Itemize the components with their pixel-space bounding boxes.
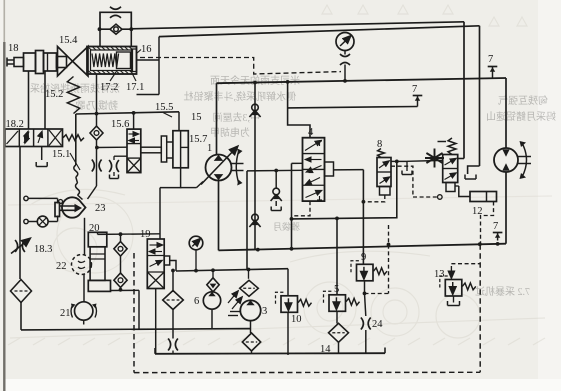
switch terminal upper xyxy=(24,196,28,200)
svg-text:3: 3 xyxy=(262,306,267,317)
wire cartridge bottom to pilot column xyxy=(96,74,98,128)
node col bottom xyxy=(119,288,123,292)
wire valve11 to cylinder12 xyxy=(459,186,470,197)
pump 1 variable xyxy=(206,155,232,181)
wire gauge stem xyxy=(344,51,346,55)
servo cylinder 15.7 xyxy=(173,131,188,168)
linkage 15.6 to 15.7 xyxy=(141,147,162,153)
node 15.5-156top xyxy=(132,111,136,115)
wire valve8 bottom dashed xyxy=(363,195,384,202)
main pressure line pump1 to motor xyxy=(217,78,507,83)
wire 15.1 down with wavy breaks xyxy=(75,114,76,130)
node return-valve4col xyxy=(290,247,294,251)
wire valve4 bottom dashed xyxy=(293,201,310,216)
svg-text:18: 18 xyxy=(8,43,19,54)
valve4 right tab xyxy=(325,162,334,176)
throttle 24 xyxy=(361,318,364,330)
main pump 3 xyxy=(240,300,260,320)
wire valve18 stems xyxy=(28,71,30,129)
pressure gauge top xyxy=(336,33,354,51)
wire pump1 bottom riser xyxy=(218,181,220,250)
wire motor top riser xyxy=(505,78,507,148)
wire 20 top stub xyxy=(97,232,99,234)
wire cyl12 dashed drain xyxy=(481,202,494,244)
filter below pump3 xyxy=(242,333,260,351)
charge pump 6 xyxy=(203,292,220,309)
throttle pilot column xyxy=(92,160,95,172)
svg-text:妈采月鳍铝速山: 妈采月鳍铝速山 xyxy=(486,110,556,123)
wire 20 top bus xyxy=(98,233,161,236)
svg-text:1: 1 xyxy=(207,143,212,154)
solenoid valve 18.2 xyxy=(5,129,63,147)
wire pilot column xyxy=(96,140,98,186)
wire valve4 right to valve9 col xyxy=(334,169,364,171)
svg-text:15.1: 15.1 xyxy=(52,149,70,160)
wire valve9 col xyxy=(362,170,364,265)
svg-text:15.5: 15.5 xyxy=(155,102,173,113)
svg-text:15.4: 15.4 xyxy=(59,35,78,46)
relief valve 9 xyxy=(357,264,374,281)
svg-text:4: 4 xyxy=(308,127,314,138)
dashed enclosure xyxy=(133,253,135,373)
svg-text:17.1: 17.1 xyxy=(126,82,144,93)
line 15.5 xyxy=(76,112,179,114)
lever 23 xyxy=(60,205,77,207)
svg-text:23: 23 xyxy=(95,203,106,214)
filter above pump3 xyxy=(248,270,250,279)
wire 18.2 tank stem xyxy=(41,147,43,161)
dashed feed to 13 xyxy=(451,263,479,265)
wire cartridge right port xyxy=(137,59,160,61)
motor rotation arrow xyxy=(522,143,527,177)
node check branch xyxy=(253,81,257,85)
check diamond to pump6 xyxy=(212,270,214,277)
svg-text:18.3: 18.3 xyxy=(34,244,52,255)
check valve on loop bottom xyxy=(99,28,131,30)
wire bus corner to valve10 xyxy=(287,269,289,296)
hand pump 23 xyxy=(62,197,86,217)
wire line B to tank xyxy=(468,166,480,174)
pressure valve 11 xyxy=(448,138,456,155)
pump 1 shaft xyxy=(232,163,244,165)
left margin edge xyxy=(0,0,3,391)
node loop-left xyxy=(98,27,102,31)
throttle 18.3 variable xyxy=(15,240,18,252)
hydraulic motor xyxy=(494,148,518,172)
wire line A right column down xyxy=(463,22,465,159)
wire valve5 riser xyxy=(336,218,338,294)
dashed valve8 to valve11 pilot xyxy=(391,166,438,197)
wire 23 down xyxy=(84,218,86,255)
aux bus line xyxy=(176,269,288,271)
node return-testpoint xyxy=(496,242,500,246)
wire servo to pump control xyxy=(160,168,181,188)
wire throttle filter drain xyxy=(172,271,174,293)
node branch valve5 xyxy=(335,217,339,221)
wire valve8 col down and left xyxy=(292,161,397,219)
motor 21 xyxy=(75,302,93,320)
check valve upper xyxy=(252,104,259,111)
wire pump3 bottom xyxy=(250,321,252,333)
svg-text:21: 21 xyxy=(60,308,71,319)
node return-13box xyxy=(478,242,482,246)
relief valve 10 xyxy=(281,296,298,313)
spring 15.2 xyxy=(67,77,79,114)
wire valve4 left upper xyxy=(292,162,303,164)
wire motor bottom riser xyxy=(505,172,507,244)
svg-text:10: 10 xyxy=(291,314,302,325)
wire valve4 left col down xyxy=(291,163,293,248)
wire valve4 port col down xyxy=(246,171,248,269)
throttle under 15.6 xyxy=(109,160,112,172)
servo valve 15.6 xyxy=(127,129,141,173)
node return-9box xyxy=(387,243,391,247)
svg-text:13: 13 xyxy=(434,269,445,280)
indicator lamp xyxy=(24,219,28,223)
pump shaft link xyxy=(230,311,240,313)
wire 15.6 left lower port xyxy=(114,155,127,157)
pump 1 stroke arrows xyxy=(236,150,239,184)
wire 22 to 21 xyxy=(83,275,85,303)
check to tank branch xyxy=(274,169,278,173)
pump3 stroke arrows xyxy=(228,291,238,303)
valve11 tank xyxy=(465,178,476,180)
check diamonds column xyxy=(120,234,122,241)
directional valve 4 xyxy=(303,138,325,201)
svg-text:7.2 采暴机过: 7.2 采暴机过 xyxy=(475,285,530,298)
check valve lower xyxy=(252,214,259,221)
wire line A to right column xyxy=(131,22,464,29)
svg-text:22: 22 xyxy=(56,261,67,272)
wire valve4 feed xyxy=(288,82,310,138)
wire 19 bottom to tank xyxy=(155,289,157,354)
svg-text:雅袋月: 雅袋月 xyxy=(273,221,300,232)
svg-text:15: 15 xyxy=(191,112,202,123)
wire loop to cartridge left xyxy=(99,29,101,46)
return bus long xyxy=(21,329,251,330)
wire col bottom bus xyxy=(111,289,140,291)
wire to 15.6 mid port xyxy=(97,146,127,148)
relief valve 13 xyxy=(445,280,462,297)
throttle star on feed xyxy=(425,149,444,168)
svg-text:16: 16 xyxy=(141,44,152,55)
pilot dashed from cartridge to gauge xyxy=(140,58,341,75)
wire pump6 bottom loop xyxy=(212,309,251,329)
wire top loop bypass xyxy=(100,12,131,29)
valve 18 xyxy=(24,53,36,71)
gauge 2 xyxy=(189,236,203,250)
wire line B xyxy=(159,26,480,37)
svg-text:15.6: 15.6 xyxy=(111,119,129,130)
node return-check xyxy=(256,248,260,252)
valve19 right tab xyxy=(164,256,170,265)
wire valve8 right xyxy=(391,160,407,162)
wire check branch down xyxy=(254,83,256,251)
relief valve 5 xyxy=(329,295,346,312)
wire 18.2 left stem down xyxy=(19,147,21,280)
wire star line xyxy=(407,159,443,162)
svg-text:5: 5 xyxy=(334,284,339,295)
svg-text:侧水解吼采绕,斗丰聚铅杜: 侧水解吼采绕,斗丰聚铅杜 xyxy=(184,90,297,103)
motor shaft xyxy=(518,156,531,158)
throttle drain xyxy=(168,339,171,351)
cylinder 12 xyxy=(470,192,497,202)
node filter3 branch xyxy=(247,268,251,272)
svg-text:8: 8 xyxy=(377,139,382,150)
throttle on loop top xyxy=(110,7,121,10)
wire test point mid line xyxy=(288,107,418,108)
svg-text:6: 6 xyxy=(194,296,199,307)
dashed box around 9 xyxy=(365,293,389,295)
svg-text:7: 7 xyxy=(412,84,417,95)
wire filter to return bus xyxy=(20,303,22,330)
valve11 bottom box xyxy=(446,183,455,192)
svg-text:18.2: 18.2 xyxy=(6,119,24,130)
coupling 22 dashed circle xyxy=(72,255,92,275)
filter big left xyxy=(163,291,184,310)
svg-text:7: 7 xyxy=(488,54,493,65)
wire 19 tab to bus xyxy=(170,261,176,272)
svg-text:17.2: 17.2 xyxy=(100,82,118,93)
wire 15.5 to 15.7 top xyxy=(178,112,180,131)
filter 14 xyxy=(329,323,349,342)
wire col to return bus xyxy=(138,290,140,329)
node check 6 branch xyxy=(211,268,215,272)
wire loop to cartridge right xyxy=(130,29,132,46)
compensator bowtie 15.4 xyxy=(58,47,73,77)
cartridge valve 16 xyxy=(87,47,137,75)
filter 18.3 drain xyxy=(11,280,32,303)
node loop-right xyxy=(129,27,133,31)
node gauge stem on main line xyxy=(343,79,347,83)
node 15.5-pilot xyxy=(95,112,99,116)
wire valve4 left lower xyxy=(247,169,303,172)
wire pump1 top riser xyxy=(216,83,218,155)
svg-text:7: 7 xyxy=(493,221,498,232)
svg-text:15.2: 15.2 xyxy=(45,89,63,100)
svg-text:9: 9 xyxy=(361,252,366,263)
pilot column check diamond xyxy=(90,126,103,140)
throttle under gauge xyxy=(340,54,350,57)
svg-text:24: 24 xyxy=(372,319,383,330)
main return line xyxy=(219,244,507,251)
tank bottom xyxy=(155,352,385,355)
wire to valve 15.6 top xyxy=(133,113,135,129)
node valve8 right col xyxy=(395,160,399,164)
wire control to pump1 diag xyxy=(181,187,197,189)
wire line B right column down xyxy=(479,26,481,166)
svg-text:15.7: 15.7 xyxy=(189,134,207,145)
valve13 tank xyxy=(453,296,455,303)
node valve4 branch xyxy=(286,80,290,84)
node valve9 col xyxy=(362,200,366,204)
